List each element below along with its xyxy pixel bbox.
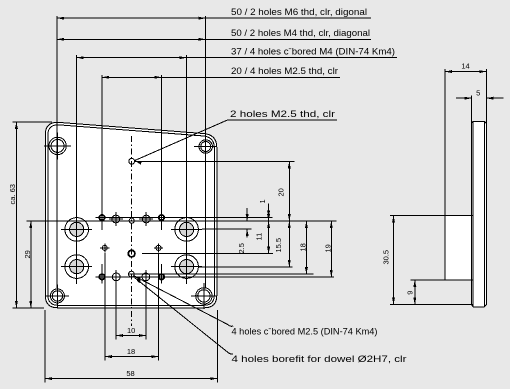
side view chamfer line right	[483, 121, 485, 306]
dim 14	[445, 71, 486, 73]
leader c-bored M2.5	[134, 276, 228, 325]
dim 18 bottom	[105, 356, 159, 358]
ext line bottom left	[13, 307, 44, 309]
corner hole M6 bottom-right	[196, 288, 212, 304]
dim 58	[45, 378, 217, 380]
center hole	[128, 250, 135, 257]
ext line ca63 top	[13, 121, 52, 123]
hole M2.5 thd row1 left	[99, 215, 104, 220]
hole c-bored bottom center	[129, 271, 135, 277]
corner hole M4 top-right	[199, 140, 212, 153]
dim 20 line	[102, 76, 340, 78]
dim 10	[116, 335, 146, 337]
svg-text:2 holes M2.5 thd, clr: 2 holes M2.5 thd, clr	[230, 109, 335, 119]
ext line x=76.7	[76, 55, 78, 284]
ext line bottom center row	[128, 273, 313, 275]
svg-text:20: 20	[277, 188, 286, 196]
ext line x=471.4 up	[470, 96, 472, 124]
svg-text:5: 5	[476, 88, 480, 97]
dim 18 vertical	[305, 221, 307, 274]
ext line lower bore row	[199, 266, 293, 268]
ext line row B datum	[27, 220, 337, 222]
ext line y=161.3	[135, 160, 294, 162]
svg-text:29: 29	[23, 250, 32, 258]
hole row2 center	[129, 218, 134, 223]
counterbored M4 hole lower-right	[175, 255, 199, 279]
dowel hole left	[102, 245, 107, 250]
svg-text:4 holes cˉbored M2.5 (DIN-74 K: 4 holes cˉbored M2.5 (DIN-74 Km4)	[232, 326, 378, 336]
hole M2.5 thd row3 right	[159, 274, 164, 279]
svg-text:1: 1	[258, 199, 267, 203]
hole M2.5 thd row3 left	[99, 274, 104, 279]
leader dowel	[135, 278, 228, 353]
dim 37 line	[77, 57, 397, 59]
ext line x=146 down	[145, 281, 147, 340]
counterbored M4 hole upper-left	[65, 218, 89, 242]
dim 20 and 15.5 vertical	[288, 161, 290, 266]
dim 2.5	[246, 208, 248, 221]
svg-text:50 / 2 holes M4 thd, clr, diag: 50 / 2 holes M4 thd, clr, diagonal	[231, 28, 370, 38]
side view chamfer line left	[472, 121, 474, 306]
hole M2.5 top center	[129, 158, 135, 164]
plate front view outer outline	[45, 122, 217, 307]
dowel hole right	[156, 245, 161, 250]
ext line boss left up	[444, 69, 446, 215]
svg-text:15.5: 15.5	[274, 238, 283, 253]
svg-text:10: 10	[127, 326, 135, 335]
ext line x=161.5 lower	[161, 264, 163, 281]
svg-text:ca. 63: ca. 63	[8, 184, 17, 204]
svg-text:11: 11	[255, 233, 264, 241]
ext line row A	[99, 217, 273, 219]
svg-text:2.5: 2.5	[237, 243, 246, 253]
hole M2.5 thd row1 right	[159, 215, 164, 220]
dim 1 and 11	[268, 204, 270, 254]
dim 30.5	[393, 216, 395, 305]
dim 50 M6 line	[57, 17, 371, 19]
vertical centerline	[131, 136, 133, 326]
dim 29	[30, 221, 32, 308]
ext line side right up	[485, 69, 487, 123]
ext line x=57.2	[56, 16, 58, 288]
dim 9	[414, 280, 416, 305]
ext line x=161.5 upper	[161, 75, 163, 230]
ext line side bottom	[390, 304, 473, 306]
ext line x=205.6	[205, 16, 207, 288]
ext line boss bottom	[411, 279, 474, 281]
counterbored M4 hole lower-left	[65, 255, 89, 279]
dim ca.63	[15, 122, 17, 308]
ext line x=102 upper	[101, 75, 103, 230]
svg-text:20 / 4 holes M2.5 thd, clr: 20 / 4 holes M2.5 thd, clr	[231, 66, 338, 76]
side view boss block	[445, 216, 471, 280]
svg-text:37 / 4 holes cˉbored M4 (DIN-7: 37 / 4 holes cˉbored M4 (DIN-74 Km4)	[231, 47, 395, 57]
dim 50 M4 line	[57, 38, 371, 40]
ext line x=217.3 down	[216, 310, 218, 383]
plate front view inner chamfer outline	[48, 125, 215, 305]
ext line x=158.5 down	[158, 253, 160, 361]
ext line row C	[202, 228, 252, 230]
svg-text:14: 14	[461, 62, 469, 71]
svg-text:50 / 2 holes M6 thd, clr, digo: 50 / 2 holes M6 thd, clr, digonal	[231, 7, 367, 17]
svg-text:18: 18	[127, 347, 135, 356]
hole row2 left	[112, 215, 120, 223]
hole row2 right	[142, 215, 150, 223]
dim 5	[456, 97, 472, 99]
counterbored M4 hole upper-right	[175, 218, 199, 242]
side view plate section	[472, 121, 487, 306]
leader to top center hole	[135, 120, 228, 161]
svg-text:9: 9	[405, 291, 414, 295]
ext line x=104.8 down	[104, 253, 106, 361]
ext line center hole row	[142, 253, 273, 255]
svg-text:19: 19	[323, 244, 332, 252]
svg-text:18: 18	[299, 243, 308, 251]
ext line x=102 lower	[101, 264, 103, 281]
svg-text:58: 58	[126, 369, 134, 378]
svg-text:30.5: 30.5	[382, 250, 391, 265]
hole row4 left	[112, 273, 120, 281]
ext line x=45.2 down	[44, 310, 46, 383]
dim 19 vertical	[330, 221, 332, 277]
ext line x=116.3 down	[115, 281, 117, 340]
corner hole M4 bottom-left	[50, 289, 64, 303]
ext line bottom row	[97, 276, 334, 278]
corner hole M6 top-left	[49, 137, 66, 154]
svg-text:4 holes borefit for dowel Ø2H7: 4 holes borefit for dowel Ø2H7, clr	[232, 354, 407, 364]
ext line boss top	[390, 215, 473, 217]
hole row4 right	[142, 273, 150, 281]
ext line x=186.6	[186, 55, 188, 284]
note 2 holes M2.5	[228, 119, 337, 121]
